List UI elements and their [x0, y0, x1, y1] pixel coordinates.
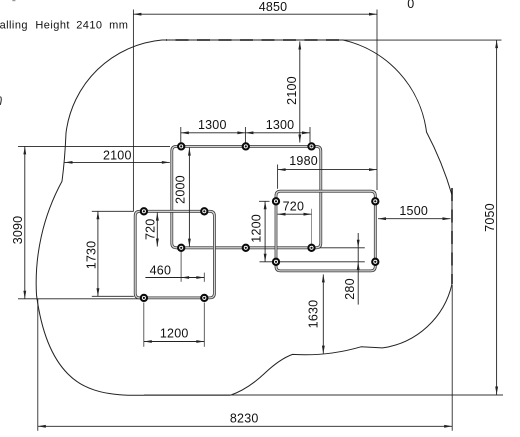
post R2 right platform: [372, 198, 378, 204]
svg-text:460: 460: [150, 264, 171, 278]
dashed boundary top: [166, 39, 345, 41]
extension line 1730 top: [92, 210, 134, 212]
dimension 2000 vertical: [188, 148, 190, 247]
extension line 3090 top: [18, 145, 170, 147]
safety area outline: [36, 40, 452, 395]
post L2 left platform: [201, 208, 207, 214]
extension line 7050 bottom / ground line: [144, 394, 503, 396]
dimension 1300 left: [181, 132, 246, 134]
dimension 2100 vertical top: [299, 42, 301, 143]
dimension 1200 vertical right rect: [264, 201, 266, 261]
svg-text:3090: 3090: [11, 216, 25, 245]
post P2 top platform: [243, 143, 249, 149]
svg-text:2100: 2100: [103, 148, 132, 162]
svg-text:7050: 7050: [483, 203, 497, 232]
extension line 3090 bottom: [18, 298, 144, 300]
svg-text:Height: Height: [35, 20, 70, 32]
post R3 right platform: [273, 259, 279, 265]
extension line 4850 right: [376, 10, 378, 191]
dimension 7050 right: [496, 40, 498, 394]
cropped glyph fragment top edge: [12, 0, 15, 1]
extension line 1730 bottom: [92, 295, 134, 297]
extension line 7050 top: [343, 39, 502, 41]
svg-text:1630: 1630: [306, 300, 320, 329]
svg-text:1200: 1200: [160, 326, 189, 340]
dimension 1200 bottom: [144, 341, 205, 343]
dimension 1300 right: [245, 132, 310, 134]
post L3 left platform: [141, 295, 147, 301]
extension line 8230 right: [451, 285, 453, 431]
svg-text:4850: 4850: [259, 0, 288, 14]
svg-text:1200: 1200: [249, 214, 263, 243]
svg-text:2100: 2100: [285, 76, 299, 105]
extension lines 1300: [180, 127, 182, 143]
cropped glyph fragment left edge: [0, 97, 1, 106]
platform frame left (1200x1730): [135, 211, 214, 298]
svg-text:1980: 1980: [289, 154, 318, 168]
dimension 2100 horizontal left: [65, 161, 170, 163]
dimension 3090: [24, 146, 26, 298]
post L4 left platform: [201, 295, 207, 301]
dimension 4850 top: [133, 13, 377, 15]
svg-text:720: 720: [283, 199, 304, 213]
svg-text:720: 720: [143, 219, 157, 240]
extension lines 460: [180, 250, 182, 282]
post P6 top platform: [308, 245, 314, 251]
extension line 280 top: [312, 247, 365, 249]
extension line 1200/280 bottom: [260, 261, 365, 263]
svg-text:2410: 2410: [76, 20, 102, 32]
dimension 460: [145, 277, 204, 279]
dimension 1980: [278, 169, 377, 171]
svg-text:0: 0: [407, 0, 414, 11]
dimension 280: [357, 233, 359, 305]
svg-text:Falling: Falling: [0, 20, 28, 32]
post L1 left platform: [141, 208, 147, 214]
platform frame top (3000x2000): [172, 146, 321, 247]
svg-text:1730: 1730: [85, 241, 99, 270]
svg-text:8230: 8230: [230, 412, 259, 426]
post P5 top platform: [243, 245, 249, 251]
extension line 1980 left: [277, 165, 279, 189]
svg-text:280: 280: [343, 278, 357, 299]
post P4 top platform: [178, 245, 184, 251]
post R1 right platform: [273, 198, 279, 204]
dimension 1500: [378, 218, 451, 220]
dashed boundary right: [451, 188, 453, 284]
platform frame right (1980x1200): [276, 191, 375, 271]
svg-text:1300: 1300: [266, 118, 295, 132]
extension line 8230 left: [37, 299, 39, 431]
dimension 8230 bottom: [38, 425, 452, 427]
dimension 720 right rect: [278, 213, 312, 215]
extension tick 1200 vertical top: [259, 200, 270, 202]
svg-text:2000: 2000: [173, 175, 187, 204]
post P3 top platform: [308, 143, 314, 149]
extension line 4850 left: [132, 10, 134, 212]
svg-text:1500: 1500: [399, 204, 428, 218]
dimension 1730: [97, 211, 99, 296]
dimension 1630: [322, 274, 324, 353]
svg-text:1300: 1300: [198, 118, 227, 132]
extension lines 1200 bottom: [143, 303, 145, 347]
extension line 720 right rect: [311, 209, 313, 244]
post P1 top platform: [178, 143, 184, 149]
dimension 720 left rect: [156, 213, 158, 247]
svg-text:mm: mm: [109, 20, 128, 32]
post R4 right platform: [372, 259, 378, 265]
